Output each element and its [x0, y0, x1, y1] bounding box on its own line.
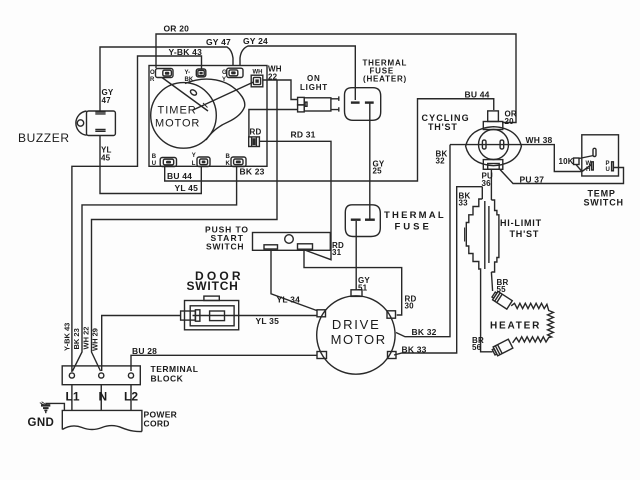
svg-text:GY 47: GY 47	[206, 37, 231, 47]
svg-text:G: G	[222, 70, 227, 76]
svg-text:31: 31	[332, 248, 342, 257]
svg-text:H: H	[586, 167, 590, 173]
svg-text:U: U	[606, 167, 610, 173]
svg-text:WH 29: WH 29	[91, 328, 100, 351]
svg-text:BK 23: BK 23	[72, 328, 81, 349]
svg-text:SWITCH: SWITCH	[187, 279, 239, 293]
svg-text:SWITCH: SWITCH	[206, 242, 244, 252]
svg-text:BK 23: BK 23	[240, 167, 265, 177]
svg-text:51: 51	[358, 284, 368, 293]
svg-text:B: B	[152, 154, 157, 160]
svg-text:20: 20	[505, 117, 515, 126]
svg-text:GY 24: GY 24	[243, 36, 268, 46]
svg-text:YL 34: YL 34	[277, 295, 301, 305]
svg-text:HEATER: HEATER	[490, 321, 541, 332]
svg-text:25: 25	[373, 167, 383, 176]
svg-text:PU 37: PU 37	[520, 175, 545, 185]
svg-text:33: 33	[459, 199, 469, 208]
svg-text:MOTOR: MOTOR	[155, 117, 200, 129]
svg-text:ON: ON	[307, 74, 321, 83]
svg-text:Y: Y	[192, 153, 196, 159]
svg-text:YL 45: YL 45	[175, 183, 199, 193]
svg-text:32: 32	[436, 157, 446, 166]
svg-text:LIGHT: LIGHT	[300, 83, 328, 92]
svg-text:O: O	[150, 70, 155, 76]
svg-text:BU 28: BU 28	[132, 346, 157, 356]
svg-text:BUZZER: BUZZER	[18, 131, 70, 145]
svg-text:U: U	[152, 161, 156, 167]
svg-text:L2: L2	[124, 390, 138, 404]
svg-text:K: K	[226, 161, 231, 167]
svg-text:CORD: CORD	[144, 419, 170, 429]
svg-text:TERMINAL: TERMINAL	[151, 364, 199, 374]
svg-text:L1: L1	[66, 390, 80, 404]
svg-text:L: L	[192, 161, 196, 167]
svg-text:Y-BK 43: Y-BK 43	[169, 47, 203, 57]
svg-text:BK: BK	[185, 77, 194, 83]
svg-text:OR 20: OR 20	[164, 24, 190, 34]
svg-text:MOTOR: MOTOR	[331, 332, 387, 347]
svg-text:55: 55	[497, 285, 507, 294]
svg-text:36: 36	[482, 179, 492, 188]
svg-text:DRIVE: DRIVE	[332, 317, 381, 332]
svg-text:TH'ST: TH'ST	[510, 229, 540, 239]
svg-text:(HEATER): (HEATER)	[363, 75, 407, 84]
svg-text:GND: GND	[28, 417, 55, 429]
svg-text:TH'ST: TH'ST	[428, 122, 458, 132]
svg-text:Y-: Y-	[185, 70, 191, 76]
svg-text:47: 47	[102, 96, 112, 105]
svg-text:RD 31: RD 31	[291, 130, 316, 140]
svg-text:SWITCH: SWITCH	[584, 198, 624, 208]
svg-text:10K: 10K	[559, 157, 574, 166]
svg-text:HI-LIMIT: HI-LIMIT	[500, 218, 542, 228]
svg-text:B: B	[226, 154, 231, 160]
svg-text:BK 32: BK 32	[412, 327, 437, 337]
svg-text:R: R	[150, 77, 155, 83]
svg-text:Y: Y	[222, 77, 226, 83]
svg-text:22: 22	[268, 73, 278, 82]
svg-text:THERMAL: THERMAL	[384, 210, 446, 221]
svg-text:WH 38: WH 38	[526, 135, 553, 145]
svg-text:30: 30	[405, 302, 415, 311]
svg-text:YL 35: YL 35	[256, 316, 280, 326]
svg-text:RD: RD	[250, 128, 262, 137]
svg-text:N: N	[99, 390, 108, 404]
svg-text:TIMER: TIMER	[158, 105, 197, 117]
svg-text:WH: WH	[253, 70, 263, 76]
svg-text:56: 56	[472, 343, 482, 352]
svg-text:BLOCK: BLOCK	[151, 374, 184, 384]
svg-text:45: 45	[101, 154, 111, 163]
svg-text:BU 44: BU 44	[167, 171, 192, 181]
svg-text:BU 44: BU 44	[465, 90, 490, 100]
svg-text:Y-BK 43: Y-BK 43	[63, 323, 72, 351]
svg-text:FUSE: FUSE	[395, 222, 432, 233]
svg-text:BK 33: BK 33	[402, 345, 427, 355]
svg-text:WH 22: WH 22	[82, 327, 91, 350]
